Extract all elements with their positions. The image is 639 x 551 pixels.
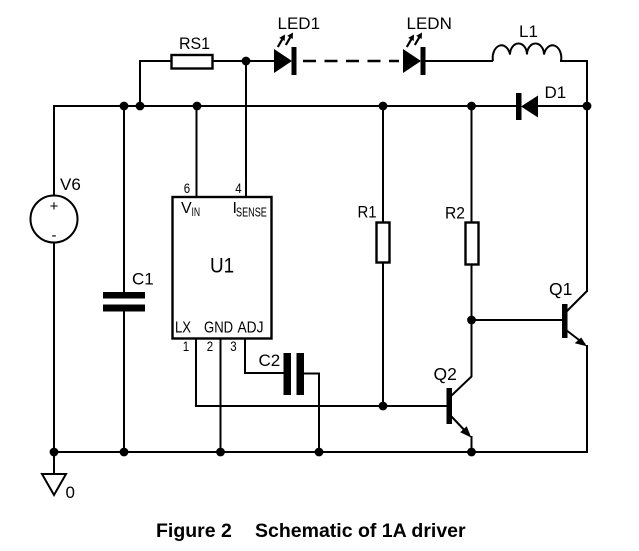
- junction: bus / R2: [467, 102, 476, 111]
- svg-text:2: 2: [207, 338, 213, 354]
- svg-text:1: 1: [183, 338, 189, 354]
- junction: rail / pin 2: [216, 448, 225, 457]
- junction: rail / Q2 emitter: [467, 448, 476, 457]
- junction: LX run / R1: [379, 402, 388, 411]
- wire: pin 6 VIN lead from bus to U1: [196, 106, 198, 197]
- wire: C1 bottom to ground rail: [123, 311, 125, 452]
- resistor R2: [445, 204, 479, 265]
- svg-text:LEDN: LEDN: [407, 14, 452, 33]
- svg-text:D1: D1: [545, 83, 567, 102]
- svg-text:V6: V6: [60, 175, 81, 194]
- junction: rail / V6: [50, 448, 59, 457]
- voltage source V6: [31, 175, 81, 244]
- svg-text:Figure 2: Figure 2: [156, 520, 232, 542]
- junction: bus / pin 6: [193, 102, 202, 111]
- transistor Q2: [434, 364, 472, 438]
- svg-text:U1: U1: [210, 255, 234, 278]
- wire: Q1 base wire: [472, 319, 564, 321]
- resistor R1: [358, 204, 390, 263]
- junction: rail / C2: [315, 448, 324, 457]
- wire: RS1 left lead: [139, 60, 172, 62]
- resistor RS1: [172, 35, 213, 69]
- svg-text:+: +: [50, 198, 59, 215]
- transistor Q1: [549, 279, 587, 346]
- wire: ADJ to C2 left plate: [244, 372, 284, 374]
- svg-text:ADJ: ADJ: [238, 319, 264, 337]
- wire: C2 right plate to drop: [304, 373, 320, 375]
- svg-text:0: 0: [66, 483, 75, 502]
- svg-text:IN: IN: [192, 207, 201, 220]
- wire: Q2 emitter down to rail: [471, 436, 473, 452]
- svg-text:-: -: [52, 227, 57, 244]
- wire: LEDN to L1: [425, 60, 493, 62]
- wire: RS1 right lead to LED1: [212, 60, 275, 62]
- svg-text:SENSE: SENSE: [236, 206, 267, 220]
- junction: R2 / Q1 base: [467, 316, 476, 325]
- wire: RS1 branch up from bus: [139, 60, 141, 106]
- junction: bus / RS1 branch: [136, 102, 145, 111]
- svg-text:4: 4: [235, 180, 241, 196]
- wire: V6 bottom to ground rail: [53, 243, 55, 453]
- wire: pin 2 GND lead down to rail: [220, 339, 222, 453]
- svg-text:L1: L1: [519, 22, 538, 41]
- wire: pin 1 LX lead down: [195, 339, 197, 408]
- svg-text:R2: R2: [445, 204, 465, 223]
- wire: pin 3 ADJ lead down: [244, 339, 246, 375]
- svg-text:RS1: RS1: [179, 35, 210, 54]
- svg-text:R1: R1: [358, 204, 377, 222]
- wire: R1 branch from bus down: [382, 106, 384, 223]
- capacitor C1: [103, 270, 154, 312]
- LED LEDN: [403, 14, 452, 75]
- svg-text:C1: C1: [132, 270, 154, 289]
- junction: RS1 output / ISENSE tap: [242, 57, 251, 66]
- wire: R2 branch from bus down: [471, 106, 473, 223]
- junction: rail / C1: [120, 448, 129, 457]
- svg-text:Q1: Q1: [549, 279, 572, 299]
- svg-text:C2: C2: [259, 351, 281, 370]
- diode D1: [516, 83, 566, 120]
- svg-text:Schematic of 1A driver: Schematic of 1A driver: [255, 520, 466, 542]
- wire: R1 bottom to LX run: [382, 262, 384, 406]
- ground 0: [42, 474, 75, 502]
- wire: ground rail: [54, 451, 587, 453]
- inductor L1: [493, 22, 562, 61]
- capacitor C2: [259, 351, 305, 395]
- wire: right column top vertical: [586, 60, 588, 106]
- wire: VIN bus right segment D1 to right column: [537, 105, 587, 107]
- wire: dashed LED string: [303, 60, 399, 62]
- wire: C1 branch from bus down: [123, 106, 125, 292]
- wire: LX horizontal run to Q2 base: [195, 405, 448, 407]
- wire: R2 bottom through Q1 base node to Q2 collector: [471, 264, 473, 377]
- junction: bus / D1 / right column: [583, 102, 592, 111]
- svg-text:V: V: [181, 200, 192, 217]
- svg-text:GND: GND: [204, 319, 233, 336]
- svg-text:Q2: Q2: [434, 364, 457, 384]
- svg-text:6: 6: [184, 180, 190, 196]
- wire: Q1 collector up to bus: [586, 106, 588, 292]
- LED LED1: [274, 14, 320, 75]
- wire: ISENSE tap vertical down to pin 4: [245, 61, 247, 197]
- svg-text:LED1: LED1: [278, 14, 321, 33]
- junction: bus / C1: [120, 102, 129, 111]
- wire: VIN bus horizontal (left segment to D1): [54, 105, 517, 107]
- svg-text:3: 3: [230, 338, 236, 354]
- wire: left column down from bus to V6: [53, 105, 55, 196]
- svg-text:LX: LX: [175, 319, 191, 336]
- wire: Q1 emitter down to rail corner: [586, 345, 588, 453]
- junction: bus / R1: [379, 102, 388, 111]
- wire: L1 to right column: [560, 60, 587, 62]
- wire: ground stub below rail: [53, 452, 55, 475]
- wire: C2 drop down to ground rail: [318, 374, 320, 453]
- IC U1: [173, 197, 272, 339]
